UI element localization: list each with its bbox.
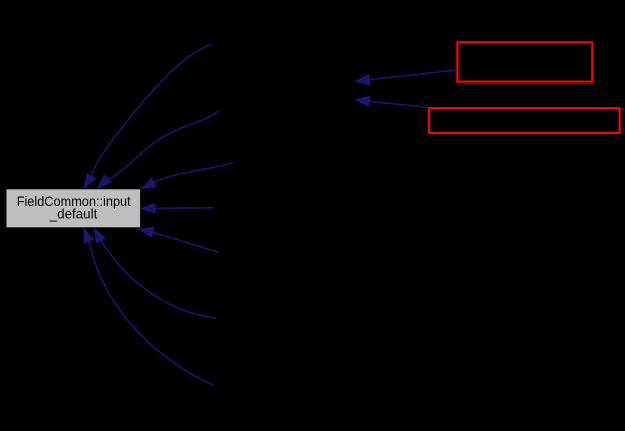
edge from red truncated box 2 to hidden caller node <box>355 96 428 107</box>
red truncated caller box 1 <box>457 42 592 81</box>
edge from caller7 (bottom) to FieldCommon::input_default <box>84 228 213 385</box>
svg-text:_default: _default <box>49 205 98 221</box>
edge from red truncated box 1 to hidden caller node <box>355 70 457 85</box>
edge from caller3 to FieldCommon::input_default <box>141 163 233 189</box>
edge from caller4 to FieldCommon::input_default <box>141 203 213 213</box>
red truncated caller box 2 <box>429 108 619 133</box>
edge from caller1 (top) to FieldCommon::input_default <box>84 44 212 188</box>
edge from caller5 to FieldCommon::input_default <box>139 227 219 252</box>
node FieldCommon::input_default (grey filled box) <box>6 189 141 228</box>
edge from caller2 to FieldCommon::input_default <box>98 111 219 188</box>
edge from caller6 to FieldCommon::input_default <box>94 228 217 318</box>
